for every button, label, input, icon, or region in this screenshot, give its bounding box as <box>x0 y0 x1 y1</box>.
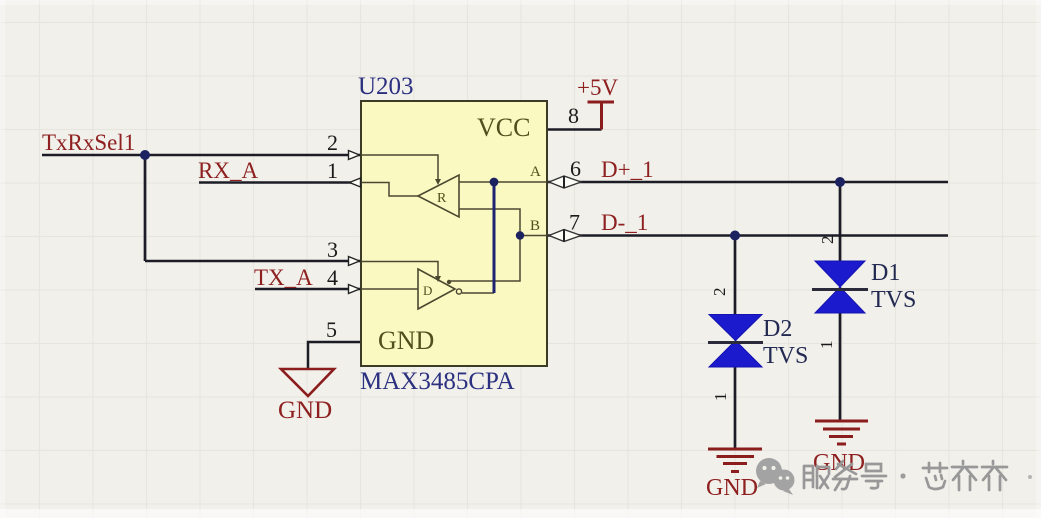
internal wire pin4 DI input <box>361 288 418 290</box>
svg-text:1: 1 <box>817 341 836 350</box>
wire pin 8 to +5V <box>547 128 602 131</box>
svg-text:3: 3 <box>327 237 338 262</box>
D1 pin 2 label <box>818 236 837 245</box>
wire TX_A to pin 4 <box>255 288 361 291</box>
wire D+ net from pin 6 <box>547 181 948 184</box>
diode D2 TVS <box>708 315 763 368</box>
qi <box>952 461 977 490</box>
pin 1 output arrow <box>350 178 361 187</box>
qi <box>982 461 1007 490</box>
wire TxRxSel1 vertical drop <box>144 155 147 261</box>
pin 3 input arrow <box>349 257 360 266</box>
svg-text:R: R <box>437 191 447 206</box>
internal driver triangle D <box>418 269 455 309</box>
svg-text:5: 5 <box>326 317 337 342</box>
wire D1 bottom to ground <box>839 313 842 421</box>
xin <box>923 463 947 489</box>
ground symbol (triangle) at pin 5 <box>281 369 334 396</box>
wire to pin 3 <box>145 260 361 263</box>
svg-text:D-_1: D-_1 <box>601 210 648 235</box>
svg-text:D+_1: D+_1 <box>601 157 654 182</box>
svg-text:TX_A: TX_A <box>254 265 313 290</box>
D1 pin 1 label <box>817 341 836 350</box>
svg-text:D1: D1 <box>871 260 900 286</box>
svg-text:MAX3485CPA: MAX3485CPA <box>360 368 515 395</box>
svg-text:D: D <box>423 283 432 298</box>
power symbol +5V <box>588 102 615 130</box>
internal wire pin2 RE enable <box>361 155 438 180</box>
svg-text:GND: GND <box>378 326 434 355</box>
D2 pin 1 label <box>711 393 730 402</box>
svg-text:1: 1 <box>327 158 338 183</box>
svg-text:VCC: VCC <box>477 113 530 142</box>
svg-text:GND: GND <box>278 397 332 424</box>
svg-text:TVS: TVS <box>763 343 808 369</box>
ground symbol (bars) under D1 <box>815 421 868 444</box>
D2 pin 2 label <box>710 288 729 297</box>
internal wire pin1 RO output <box>361 183 418 197</box>
wire D2 top <box>734 236 737 316</box>
internal thick navy wire to A junction <box>493 182 496 293</box>
internal driver output bubble <box>456 289 461 294</box>
svg-text:A: A <box>530 164 541 180</box>
pin 4 input arrow <box>349 285 360 294</box>
pin 2 input arrow <box>349 151 360 160</box>
svg-text:GND: GND <box>706 475 758 501</box>
diode D1 TVS <box>812 261 868 313</box>
wire RX_A to pin 1 <box>199 181 361 184</box>
svg-text:TxRxSel1: TxRxSel1 <box>42 130 135 155</box>
internal wire D output horizontal <box>462 292 494 294</box>
hao <box>862 464 886 488</box>
svg-text:TVS: TVS <box>871 287 916 313</box>
wire pin 5 to ground <box>308 342 361 369</box>
svg-text:2: 2 <box>327 130 338 155</box>
op-amp U203 chip body <box>361 101 547 366</box>
edge vignette <box>0 509 1041 518</box>
watermark wechat icon <box>756 458 795 495</box>
pin 6 port diamond <box>549 176 581 188</box>
svg-text:RX_A: RX_A <box>198 158 258 183</box>
internal wire R input A <box>459 181 547 183</box>
internal junction dot A <box>490 178 499 187</box>
svg-text:2: 2 <box>710 288 729 297</box>
pin 7 port diamond <box>549 230 581 242</box>
watermark small dot <box>900 473 905 478</box>
svg-text:4: 4 <box>327 265 338 290</box>
wire TxRxSel1 horizontal to pin 2 <box>42 154 361 157</box>
svg-text:8: 8 <box>568 103 579 128</box>
internal junction dot B <box>516 231 524 239</box>
svg-text:GND: GND <box>813 450 865 476</box>
wire D- net from pin 7 <box>547 234 948 237</box>
internal wire B to pin7 <box>520 235 547 237</box>
wu <box>833 461 857 490</box>
svg-text:6: 6 <box>570 156 581 181</box>
svg-text:2: 2 <box>818 236 837 245</box>
junction dot D2 on D- <box>730 231 740 241</box>
junction dot D1 on D+ <box>835 177 845 187</box>
svg-text:D2: D2 <box>763 316 792 342</box>
watermark text strokes <box>804 461 1007 490</box>
ground symbol (bars) under D2 <box>708 449 762 472</box>
svg-text:U203: U203 <box>358 73 414 100</box>
svg-text:1: 1 <box>711 393 730 402</box>
internal receiver triangle R <box>418 175 459 217</box>
junction dot TxRxSel1 <box>140 150 150 160</box>
svg-text:+5V: +5V <box>577 75 618 100</box>
svg-text:B: B <box>530 218 540 234</box>
svg-text:7: 7 <box>569 210 580 235</box>
internal wire R input B <box>449 209 520 281</box>
wire D2 bottom to ground <box>734 367 737 449</box>
fu <box>804 466 813 488</box>
wire D1 top <box>839 182 842 261</box>
internal wire pin3 DE enable <box>361 262 438 278</box>
